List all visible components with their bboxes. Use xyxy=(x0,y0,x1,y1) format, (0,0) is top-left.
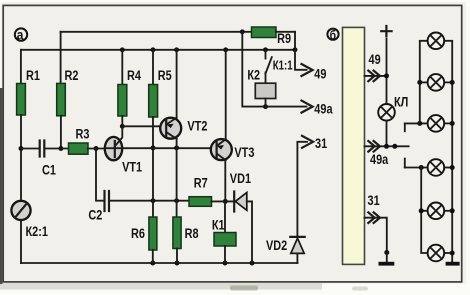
connector chevrons 49a xyxy=(368,141,380,152)
svg-text:49: 49 xyxy=(369,52,381,68)
wire C2 branch xyxy=(96,149,103,201)
junction C2 row/R6 column xyxy=(151,198,156,203)
wire 31 row xyxy=(365,218,387,253)
junction bottom/VD1 xyxy=(250,261,255,266)
svg-text:VT2: VT2 xyxy=(187,118,207,134)
junction rail2/VT2 collector xyxy=(174,47,179,52)
switch lower throw stub xyxy=(404,159,406,168)
wire left bus group2 xyxy=(421,168,428,254)
wire lamp2 left tap xyxy=(420,81,428,83)
wire top rail 1 (R2 top to R9) xyxy=(61,31,252,33)
junction right bus xyxy=(450,251,455,256)
lamp L5 xyxy=(428,203,445,220)
wire KL to 49a row xyxy=(386,121,388,147)
node b: panel label xyxy=(327,28,338,42)
connector chevrons 31 xyxy=(368,212,380,223)
switch upper throw stub xyxy=(404,123,406,131)
relay coil K1 xyxy=(212,201,236,263)
svg-text:R9: R9 xyxy=(277,31,291,47)
svg-text:К1: К1 xyxy=(212,217,225,233)
transistor VT2 xyxy=(160,118,207,139)
svg-text:R1: R1 xyxy=(26,68,40,84)
connector block (flasher unit) xyxy=(343,27,365,264)
contact K1:1 xyxy=(266,50,294,74)
wire R8 bottom lead xyxy=(176,249,178,264)
wire lamp right tap xyxy=(444,167,452,169)
junction rail2/R5 xyxy=(151,47,156,52)
transistor VT3 xyxy=(211,139,255,160)
junction bottom/R6 xyxy=(150,261,155,266)
svg-text:C1: C1 xyxy=(42,162,56,178)
wire 49a row (switch arm) xyxy=(365,145,409,147)
svg-text:К2:1: К2:1 xyxy=(26,224,48,240)
lamp L1 xyxy=(428,33,445,50)
wire 31 output xyxy=(297,136,327,237)
resistor R6 xyxy=(131,217,157,250)
lamp KL (indicator) xyxy=(378,94,408,121)
diode VD1 xyxy=(230,171,251,212)
resistor R3 xyxy=(69,126,90,154)
wire bottom rail xyxy=(21,262,297,264)
wire VD1 to bottom rail xyxy=(247,201,252,263)
junction right bus xyxy=(450,80,455,85)
junction switch pivot xyxy=(392,144,397,149)
svg-text:К2: К2 xyxy=(247,67,260,83)
wire VT3 emitter to K1 xyxy=(224,160,226,201)
capacitor C1 xyxy=(40,141,56,178)
resistor R7 xyxy=(189,175,212,206)
junction VT1 collector node xyxy=(120,124,125,129)
wire 49 row xyxy=(365,75,387,77)
wire R1 top lead xyxy=(20,50,22,84)
wire C2 to R7 xyxy=(110,200,189,202)
svg-text:R6: R6 xyxy=(131,226,145,242)
wire C1 left lead xyxy=(21,148,39,150)
wire VT3 collector lead xyxy=(225,50,227,139)
svg-text:49: 49 xyxy=(314,66,326,82)
wire feed right lamp group xyxy=(405,167,428,169)
wire R1 bottom to K2:1 xyxy=(20,115,22,201)
node a: panel label xyxy=(15,27,27,43)
junction bottom/K1 xyxy=(223,261,228,266)
lamp L6 xyxy=(428,245,445,262)
junction emitter row / R8 column xyxy=(174,145,179,150)
junction R2/C1 row xyxy=(58,146,63,151)
wire left bus group1 xyxy=(420,41,428,124)
contact K2:1 xyxy=(11,201,48,239)
junction ground 31 xyxy=(384,250,389,255)
junction rail2/VT3 collector xyxy=(223,47,228,52)
junction feed1/left bus xyxy=(417,121,422,126)
svg-text:VT1: VT1 xyxy=(122,159,142,175)
junction rail1 / 49a rail xyxy=(240,29,245,34)
wire VT2 emitter to R8 column xyxy=(176,139,178,217)
capacitor C2 xyxy=(88,191,109,223)
wire C1 to R3 xyxy=(45,148,68,150)
svg-text:R7: R7 xyxy=(194,175,208,191)
junction K1 node xyxy=(223,199,228,204)
wire K2:1 to bottom rail xyxy=(20,220,22,263)
ground 31 xyxy=(379,253,395,266)
junction C2 row/R8 column xyxy=(174,198,179,203)
svg-text:R3: R3 xyxy=(76,126,90,142)
wire R4 top lead xyxy=(121,50,123,85)
resistor R2 xyxy=(57,68,79,116)
transistor VT1 xyxy=(105,126,142,174)
wire 49 output xyxy=(295,32,326,82)
wire R2 bottom lead xyxy=(60,116,62,149)
svg-text:R8: R8 xyxy=(185,226,199,242)
relay coil K2 xyxy=(247,67,275,106)
junction left bus lamp2 xyxy=(417,80,422,85)
lamp L2 xyxy=(428,74,445,91)
svg-text:а: а xyxy=(17,27,24,43)
wire lamp right tap xyxy=(444,210,452,212)
junction 49a/K2 xyxy=(263,104,268,109)
wire VD2 to bottom rail xyxy=(296,253,298,263)
wire R5 top lead xyxy=(152,50,154,85)
resistor R8 xyxy=(173,217,199,249)
wire R6 bottom lead xyxy=(152,250,154,263)
scan dark left edge xyxy=(0,88,2,284)
wire R2 top lead xyxy=(60,32,62,84)
junction R3/C2 branch xyxy=(94,146,99,151)
lamp L4 xyxy=(428,159,445,176)
svg-text:б: б xyxy=(330,28,336,42)
junction right bus xyxy=(450,165,455,170)
svg-text:31: 31 xyxy=(368,193,380,209)
junction 49 row xyxy=(384,73,389,78)
wire VT2 collector lead xyxy=(176,50,178,118)
scan smudge marks xyxy=(230,286,258,291)
resistor R1 xyxy=(17,68,40,115)
junction rail2/K1:1 xyxy=(263,47,268,52)
resistor R4 xyxy=(118,68,141,116)
svg-text:КЛ: КЛ xyxy=(394,94,408,110)
wire top rail 2 xyxy=(21,49,295,51)
svg-text:К1:1: К1:1 xyxy=(273,59,293,73)
wire lamp right tap xyxy=(444,252,452,254)
ground lamps xyxy=(446,262,460,266)
svg-text:R4: R4 xyxy=(127,68,141,84)
connector chevrons 49 xyxy=(368,71,380,82)
junction R1/C1 row xyxy=(19,146,24,151)
svg-text:R2: R2 xyxy=(65,68,79,84)
svg-text:31: 31 xyxy=(315,136,327,152)
wire lamp right tap xyxy=(444,122,452,124)
wire plus down to 49 row xyxy=(386,39,388,104)
wire lamp5 left tap xyxy=(421,210,428,212)
wire R7 to VD1 xyxy=(212,200,234,202)
junction bottom/R8 xyxy=(175,261,180,266)
junction left bus lamp5 xyxy=(419,208,424,213)
svg-text:49а: 49а xyxy=(314,101,333,117)
wire lamp right tap xyxy=(444,81,452,83)
wire R5 to R6 column xyxy=(152,117,154,217)
wire R3 to VT1 base xyxy=(88,148,105,150)
svg-text:49а: 49а xyxy=(370,152,389,168)
junction rail2/49 line xyxy=(293,47,298,52)
plus terminal xyxy=(381,26,391,36)
wire 49a output xyxy=(242,32,333,117)
resistor R9 xyxy=(252,27,292,46)
svg-text:C2: C2 xyxy=(88,207,102,223)
resistor R5 xyxy=(149,68,172,117)
junction 49a/KL xyxy=(384,144,389,149)
wire node to VT2 base xyxy=(122,125,160,127)
junction R5 column / base row xyxy=(151,145,156,150)
wire R4 bottom lead xyxy=(121,116,123,126)
wire right bus xyxy=(444,41,452,262)
junction right bus xyxy=(450,208,455,213)
diode VD2 xyxy=(266,237,305,254)
svg-text:R5: R5 xyxy=(158,68,172,84)
lamp L3 xyxy=(428,115,445,132)
junction feed2/left bus xyxy=(419,165,424,170)
svg-text:VD1: VD1 xyxy=(230,171,251,187)
wire VT1 emitter row to VT3 base xyxy=(105,147,211,149)
junction right bus xyxy=(450,121,455,126)
wire feed left lamp group xyxy=(405,122,428,124)
svg-text:VD2: VD2 xyxy=(266,238,287,254)
junction rail2/R4 xyxy=(120,47,125,52)
wire R9 right to 49 corner xyxy=(276,31,295,33)
scan shadow bottom band xyxy=(0,283,322,290)
svg-text:VT3: VT3 xyxy=(234,145,254,161)
